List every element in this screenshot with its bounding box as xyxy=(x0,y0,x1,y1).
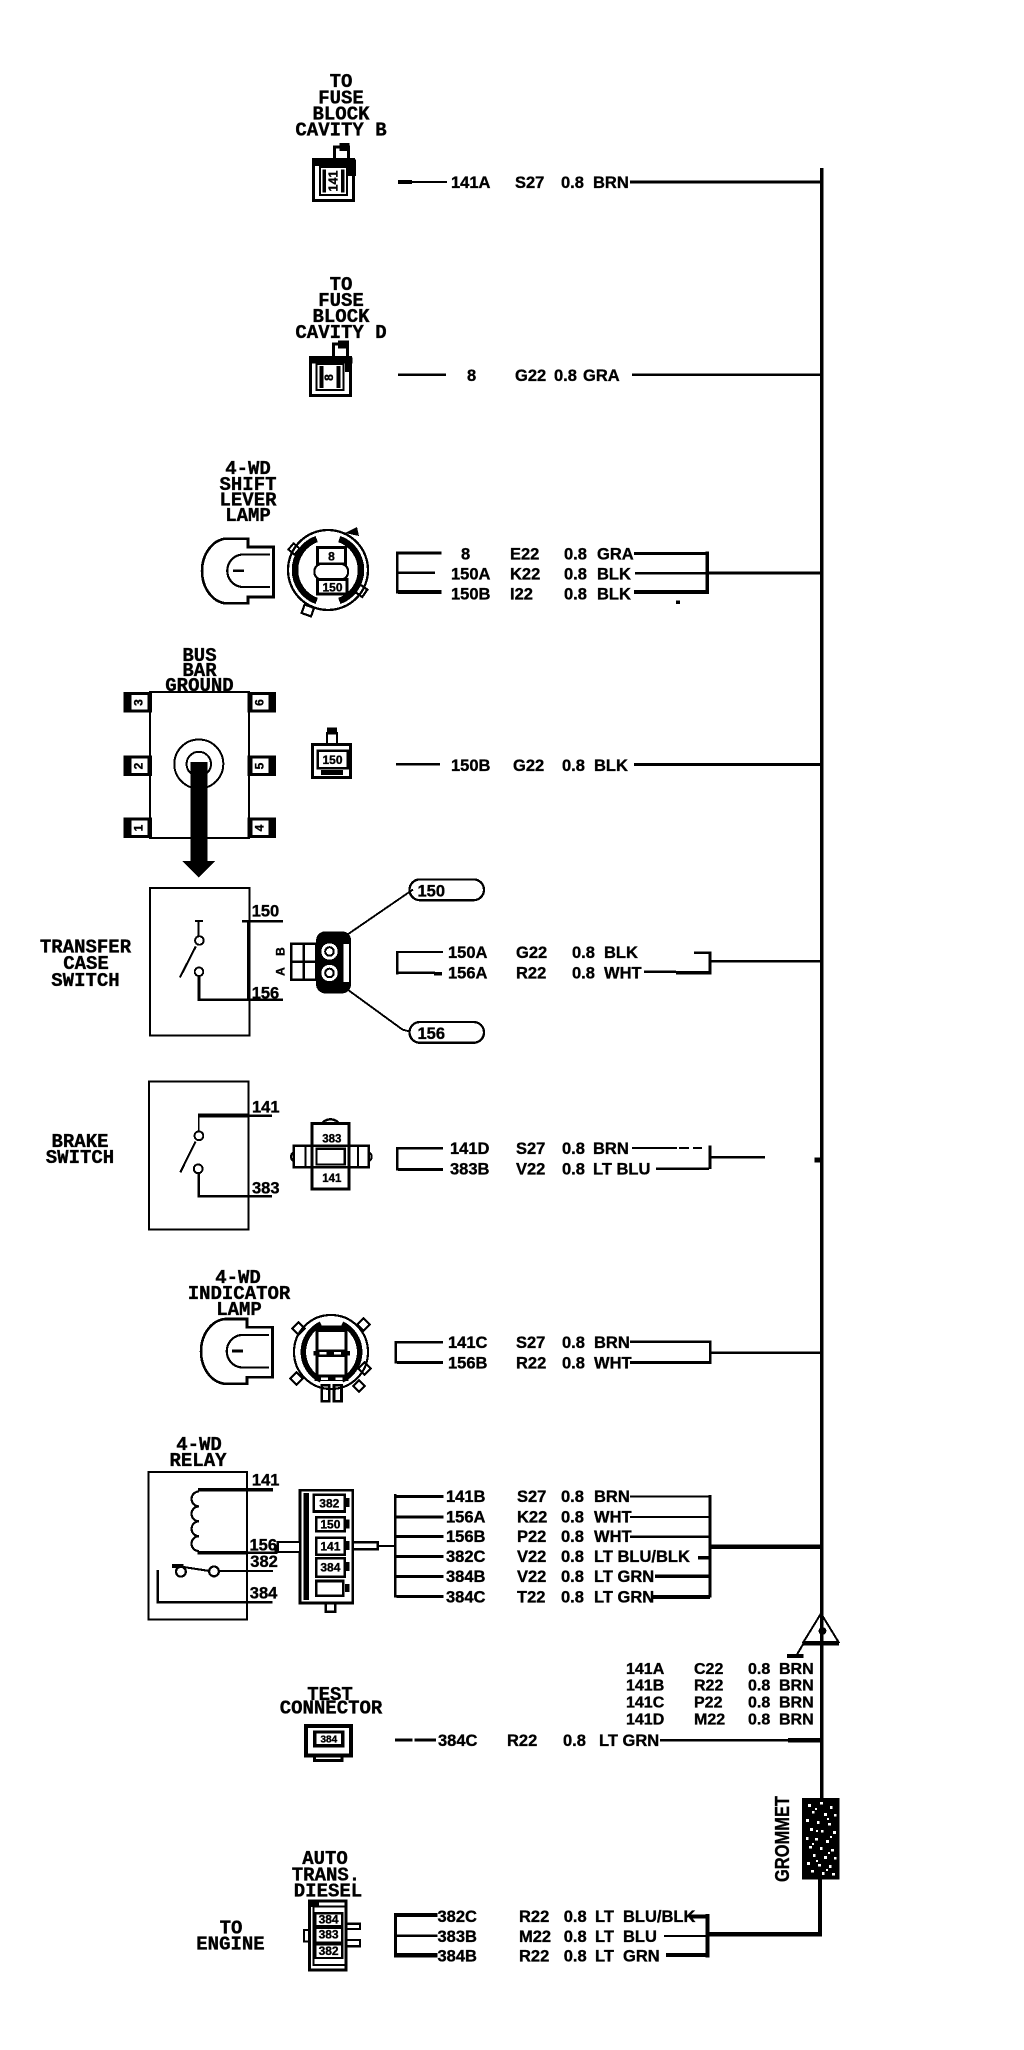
svg-text:M22: M22 xyxy=(519,1928,551,1946)
junction: 156A jog to bus xyxy=(694,952,710,954)
svg-text:GROMMET: GROMMET xyxy=(772,1796,794,1882)
wire 141B S27 0.8 BRN xyxy=(446,1488,710,1506)
svg-text:BRN: BRN xyxy=(594,1334,630,1352)
svg-text:150A: 150A xyxy=(448,944,488,962)
svg-text:RELAY: RELAY xyxy=(169,1450,227,1472)
svg-text:R22: R22 xyxy=(516,1355,546,1373)
label: 4-WD RELAY xyxy=(169,1434,227,1472)
transfer case switch: lead to pin 156 xyxy=(199,977,283,1000)
wire: lamp leads to bus xyxy=(709,572,821,575)
bus tick at brake wire level xyxy=(815,1158,824,1163)
svg-text:2: 2 xyxy=(132,762,146,769)
svg-text:LT BLU: LT BLU xyxy=(593,1161,650,1179)
label: TRANSFER CASE SWITCH xyxy=(40,937,132,993)
svg-text:0.8: 0.8 xyxy=(748,1695,770,1712)
svg-text:R22: R22 xyxy=(519,1948,549,1966)
svg-text:LT BLU/BLK: LT BLU/BLK xyxy=(594,1548,690,1566)
label: TEST CONNECTOR xyxy=(280,1684,383,1720)
svg-text:0.8: 0.8 xyxy=(564,1948,587,1966)
bus bar pin 3 xyxy=(124,692,153,713)
brake switch: arm xyxy=(180,1142,195,1173)
wire 156A K22 0.8 WHT xyxy=(446,1509,710,1527)
svg-text:BLU: BLU xyxy=(623,1928,657,1946)
svg-text:382: 382 xyxy=(319,1944,339,1958)
brake switch: top contact xyxy=(195,1131,204,1140)
svg-text:141A: 141A xyxy=(451,174,491,192)
svg-text:0.8: 0.8 xyxy=(748,1678,770,1695)
label: 4-WD SHIFT LEVER LAMP xyxy=(219,458,277,527)
svg-text:C22: C22 xyxy=(694,1661,723,1678)
svg-text:0.8: 0.8 xyxy=(564,566,587,584)
bus bar pin 1 xyxy=(124,818,153,839)
svg-text:150: 150 xyxy=(252,903,280,921)
svg-text:0.8: 0.8 xyxy=(564,1928,587,1946)
label: TO ENGINE xyxy=(196,1918,264,1956)
wire bracket: brake switch leads xyxy=(396,1147,443,1171)
svg-text:0.8: 0.8 xyxy=(561,1528,584,1546)
ground arrow (to transfer case switch) xyxy=(190,762,207,861)
svg-text:141: 141 xyxy=(320,1540,340,1554)
svg-text:BRN: BRN xyxy=(593,174,629,192)
brake switch: body xyxy=(149,1082,249,1230)
svg-text:R22: R22 xyxy=(694,1678,723,1695)
svg-text:0.8: 0.8 xyxy=(572,944,595,962)
svg-text:141B: 141B xyxy=(626,1678,664,1695)
svg-text:CAVITY B: CAVITY B xyxy=(295,120,386,142)
transfer case switch: top contact xyxy=(195,936,204,945)
svg-text:V22: V22 xyxy=(516,1161,545,1179)
svg-text:BRN: BRN xyxy=(594,1488,630,1506)
relay wire to pin 384 xyxy=(158,1570,273,1602)
wire 141C S27 0.8 BRN xyxy=(448,1334,709,1352)
svg-text:BRN: BRN xyxy=(779,1678,814,1695)
svg-text:BLK: BLK xyxy=(604,944,638,962)
svg-text:384B: 384B xyxy=(446,1568,486,1586)
svg-text:0.8: 0.8 xyxy=(562,1334,585,1352)
svg-text:141: 141 xyxy=(326,171,340,192)
wire 156A R22 0.8 WHT xyxy=(448,965,710,983)
relay pin 141 xyxy=(252,1472,280,1490)
svg-text:SWITCH: SWITCH xyxy=(46,1147,114,1169)
svg-text:0.8: 0.8 xyxy=(562,757,585,775)
stray dot artifact xyxy=(676,600,680,603)
svg-text:GRN: GRN xyxy=(623,1948,660,1966)
svg-text:156: 156 xyxy=(250,1537,278,1555)
svg-text:141C: 141C xyxy=(626,1695,665,1712)
wire 384B V22 0.8 LT GRN xyxy=(446,1568,710,1586)
svg-text:GRA: GRA xyxy=(597,546,634,564)
svg-text:156A: 156A xyxy=(448,965,488,983)
splice symbol S1: harness splice (triangle with dot) xyxy=(787,1614,839,1659)
svg-text:382: 382 xyxy=(250,1553,278,1571)
svg-text:P22: P22 xyxy=(694,1695,723,1712)
relay K1: 4-WD relay body xyxy=(148,1472,247,1619)
svg-text:141: 141 xyxy=(252,1099,280,1117)
svg-text:1: 1 xyxy=(132,824,146,831)
label: BRAKE SWITCH xyxy=(46,1131,114,1169)
svg-text:E22: E22 xyxy=(510,546,539,564)
brake switch: lead from pin 141 xyxy=(198,1114,249,1118)
wire 384B R22 0.8 LT GRN xyxy=(438,1948,709,1966)
svg-text:8: 8 xyxy=(328,550,335,564)
junction bracket: brake leads xyxy=(708,1145,711,1168)
connector C2: fuse block cavity D, terminal 8 xyxy=(311,341,353,396)
bus bar pin 2 xyxy=(124,756,153,777)
svg-text:156: 156 xyxy=(418,1025,446,1043)
relay switch arm xyxy=(183,1567,209,1571)
bus bar pin 5 xyxy=(248,756,277,777)
junction bracket: indicator leads xyxy=(709,1341,712,1364)
svg-text:384B: 384B xyxy=(438,1948,478,1966)
transfer case switch: body xyxy=(150,888,249,1036)
wire 150A G22 0.8 BLK xyxy=(448,944,638,962)
wire 150A K22 0.8 BLK xyxy=(451,566,709,584)
connector C7: indicator lamp socket xyxy=(290,1315,371,1401)
node 156 (in-line connector capsule) xyxy=(410,1022,485,1043)
svg-text:R22: R22 xyxy=(519,1908,549,1926)
node 150 (in-line connector capsule) xyxy=(410,879,485,900)
splice wire table: 141A C22 0.8 BRN xyxy=(626,1661,814,1678)
svg-text:S27: S27 xyxy=(516,1334,545,1352)
wire bracket: transfer case switch leads xyxy=(396,951,443,976)
wire 156B P22 0.8 WHT xyxy=(446,1528,710,1546)
svg-text:8: 8 xyxy=(322,374,336,381)
svg-text:BLU/BLK: BLU/BLK xyxy=(623,1908,695,1926)
svg-text:S27: S27 xyxy=(517,1488,546,1506)
wire: main harness bus (vertical run, right side) xyxy=(820,168,824,1798)
wire 382C R22 0.8 LT BLU/BLK xyxy=(438,1908,709,1926)
svg-text:R22: R22 xyxy=(507,1732,537,1750)
relay connector left wing xyxy=(278,1542,300,1552)
connector C4: bus bar ground lead, terminal 150 xyxy=(313,728,351,778)
bus bar pin 6 xyxy=(248,692,277,713)
svg-text:384C: 384C xyxy=(446,1589,486,1607)
wire bracket: shift lever lamp leads xyxy=(396,552,442,594)
junction bracket: relay leads xyxy=(709,1495,712,1598)
svg-text:0.8: 0.8 xyxy=(748,1712,770,1729)
svg-text:G22: G22 xyxy=(516,944,547,962)
svg-text:382C: 382C xyxy=(438,1908,478,1926)
svg-text:ENGINE: ENGINE xyxy=(196,1934,264,1956)
svg-text:382: 382 xyxy=(319,1497,339,1511)
svg-text:383: 383 xyxy=(319,1928,339,1942)
svg-text:S27: S27 xyxy=(515,174,544,192)
svg-text:G22: G22 xyxy=(513,757,544,775)
svg-text:BRN: BRN xyxy=(779,1712,814,1729)
svg-text:WHT: WHT xyxy=(594,1509,632,1527)
wire: connector to node 156 xyxy=(346,989,409,1032)
svg-text:150: 150 xyxy=(322,753,342,767)
relay coil xyxy=(192,1492,199,1552)
svg-text:BRN: BRN xyxy=(593,1140,629,1158)
relay coil feed wire (pin 141) xyxy=(198,1488,273,1491)
wire 8 E22 0.8 GRA (lamp feed) xyxy=(461,546,709,564)
label: BUS BAR GROUND xyxy=(165,645,233,697)
svg-text:383: 383 xyxy=(322,1134,341,1146)
svg-text:384: 384 xyxy=(250,1585,278,1603)
svg-text:156B: 156B xyxy=(446,1528,486,1546)
splice wire table: 141C P22 0.8 BRN xyxy=(626,1695,814,1712)
svg-text:0.8: 0.8 xyxy=(561,1568,584,1586)
wire bracket: indicator lamp leads xyxy=(395,1341,443,1364)
svg-text:150A: 150A xyxy=(451,566,491,584)
wire bracket: engine leads xyxy=(394,1913,437,1958)
transfer case switch: bottom contact xyxy=(195,968,204,977)
svg-text:141C: 141C xyxy=(448,1334,488,1352)
wire 150B G22 0.8 BLK xyxy=(396,757,821,775)
svg-text:0.8: 0.8 xyxy=(562,1140,585,1158)
svg-text:SWITCH: SWITCH xyxy=(51,970,119,992)
label: TO FUSE BLOCK CAVITY D xyxy=(295,274,386,344)
label: 4-WD INDICATOR LAMP xyxy=(188,1267,291,1321)
transfer case switch pin 156 xyxy=(252,985,280,1003)
transfer case switch: contact stem xyxy=(195,920,203,922)
svg-text:LT: LT xyxy=(595,1928,614,1946)
svg-text:150B: 150B xyxy=(451,586,491,604)
svg-text:BLK: BLK xyxy=(597,586,631,604)
connector C8: 4-WD relay connector xyxy=(278,1490,395,1612)
junction bracket to bus (lamp leads) xyxy=(706,552,709,594)
svg-text:V22: V22 xyxy=(517,1548,546,1566)
svg-text:LT GRN: LT GRN xyxy=(594,1589,654,1607)
transfer case switch: inner right lead xyxy=(247,922,249,999)
brake switch: bottom contact xyxy=(194,1164,203,1173)
svg-text:DIESEL: DIESEL xyxy=(294,1881,362,1903)
wire 156B R22 0.8 WHT xyxy=(448,1355,709,1373)
svg-text:GRA: GRA xyxy=(583,367,620,385)
svg-text:141B: 141B xyxy=(446,1488,486,1506)
svg-text:WHT: WHT xyxy=(594,1528,632,1546)
relay switch contact left xyxy=(176,1567,186,1577)
connector C1: fuse block cavity B, terminal 141 xyxy=(314,143,357,201)
svg-text:LT: LT xyxy=(595,1908,614,1926)
wire: transfer case leads to bus xyxy=(711,960,821,963)
svg-text:A: A xyxy=(274,967,288,976)
svg-text:156: 156 xyxy=(252,985,280,1003)
transfer case switch pin 150 xyxy=(242,903,283,923)
svg-text:384: 384 xyxy=(319,1912,339,1926)
svg-text:0.8: 0.8 xyxy=(564,546,587,564)
wire: relay leads to bus xyxy=(711,1545,821,1550)
svg-text:CONNECTOR: CONNECTOR xyxy=(280,1698,383,1720)
svg-text:G22: G22 xyxy=(515,367,546,385)
svg-text:S27: S27 xyxy=(516,1140,545,1158)
label: AUTO TRANS. DIESEL xyxy=(292,1848,362,1903)
svg-text:0.8: 0.8 xyxy=(564,586,587,604)
wire: connector to node 150 xyxy=(348,890,414,935)
svg-text:0.8: 0.8 xyxy=(563,1732,586,1750)
svg-text:0.8: 0.8 xyxy=(564,1908,587,1926)
lamp L1: 4-WD shift lever lamp bulb xyxy=(202,539,273,604)
wire 150B I22 0.8 BLK xyxy=(451,586,709,604)
svg-text:T22: T22 xyxy=(517,1589,545,1607)
svg-text:K22: K22 xyxy=(510,566,540,584)
svg-text:384C: 384C xyxy=(438,1732,478,1750)
svg-text:0.8: 0.8 xyxy=(561,1488,584,1506)
svg-text:LAMP: LAMP xyxy=(225,505,271,527)
wire 382C V22 0.8 LT BLU/BLK xyxy=(446,1548,710,1566)
svg-text:384: 384 xyxy=(320,1561,340,1575)
svg-text:K22: K22 xyxy=(517,1509,547,1527)
relay connector right wing xyxy=(353,1542,378,1549)
svg-text:8: 8 xyxy=(467,367,476,385)
wire 141D S27 0.8 BRN xyxy=(450,1140,702,1158)
svg-text:383B: 383B xyxy=(438,1928,478,1946)
splice wire table: 141B R22 0.8 BRN xyxy=(626,1678,814,1695)
svg-text:150: 150 xyxy=(418,883,446,901)
svg-text:150: 150 xyxy=(320,1518,340,1532)
bus bar pin 4 xyxy=(248,818,277,839)
svg-text:156A: 156A xyxy=(446,1509,486,1527)
connector C5: transfer case switch connector xyxy=(291,931,351,993)
svg-text:I22: I22 xyxy=(510,586,533,604)
connector C10: engine harness connector (384/383/382) xyxy=(304,1900,360,1971)
lamp L2: 4-WD indicator lamp bulb xyxy=(201,1319,272,1384)
svg-text:5: 5 xyxy=(253,762,267,769)
svg-text:M22: M22 xyxy=(694,1712,725,1729)
connector C6: brake switch connector (383 / 141) xyxy=(291,1119,372,1189)
svg-text:0.8: 0.8 xyxy=(561,1509,584,1527)
svg-text:V22: V22 xyxy=(517,1568,546,1586)
svg-text:0.8: 0.8 xyxy=(562,1161,585,1179)
splice wire table: 141D M22 0.8 BRN xyxy=(626,1712,814,1729)
svg-text:B: B xyxy=(274,947,288,956)
svg-text:3: 3 xyxy=(132,699,146,706)
svg-text:WHT: WHT xyxy=(594,1355,632,1373)
svg-text:WHT: WHT xyxy=(604,965,642,983)
svg-text:BLK: BLK xyxy=(597,566,631,584)
svg-text:8: 8 xyxy=(461,546,470,564)
wire 384C T22 0.8 LT GRN xyxy=(446,1589,710,1607)
svg-text:0.8: 0.8 xyxy=(561,1548,584,1566)
svg-text:BRN: BRN xyxy=(779,1695,814,1712)
wire bracket: relay leads xyxy=(394,1494,444,1598)
svg-text:0.8: 0.8 xyxy=(561,1589,584,1607)
svg-text:BRN: BRN xyxy=(779,1661,814,1678)
brake switch: lead to pin 383 xyxy=(199,1174,272,1197)
svg-text:6: 6 xyxy=(253,699,267,706)
wire: bus below grommet xyxy=(818,1880,822,1937)
relay switch pivot tick xyxy=(172,1564,184,1568)
brake switch pin 383 xyxy=(252,1180,280,1198)
svg-text:0.8: 0.8 xyxy=(748,1661,770,1678)
wire 8 G22 0.8 GRA xyxy=(398,367,821,385)
junction bracket: engine leads xyxy=(706,1914,710,1958)
wire 384C R22 0.8 LT GRN xyxy=(395,1732,822,1750)
svg-text:LT GRN: LT GRN xyxy=(594,1568,654,1586)
connector C9: test connector (384) xyxy=(306,1726,351,1761)
svg-text:141A: 141A xyxy=(626,1661,665,1678)
relay switch wire to pin 382 xyxy=(219,1570,273,1572)
bus bar ground: body xyxy=(150,692,249,838)
svg-text:141: 141 xyxy=(322,1173,342,1185)
svg-text:383: 383 xyxy=(252,1180,280,1198)
svg-text:0.8: 0.8 xyxy=(562,1355,585,1373)
relay coil return wire (pin 156) xyxy=(198,1551,247,1555)
wire: indicator leads to bus xyxy=(712,1352,821,1355)
ground stud rings xyxy=(174,740,223,789)
svg-text:BLK: BLK xyxy=(594,757,628,775)
label: TO FUSE BLOCK CAVITY B xyxy=(295,71,386,142)
svg-text:0.8: 0.8 xyxy=(561,174,584,192)
svg-text:150B: 150B xyxy=(451,757,491,775)
grommet: stippled body on bus xyxy=(802,1798,840,1880)
svg-text:383B: 383B xyxy=(450,1161,490,1179)
svg-text:156B: 156B xyxy=(448,1355,488,1373)
svg-text:150: 150 xyxy=(322,581,342,595)
svg-text:LT: LT xyxy=(595,1948,614,1966)
brake switch pin 141 xyxy=(252,1099,280,1117)
svg-text:LT GRN: LT GRN xyxy=(599,1732,659,1750)
svg-text:P22: P22 xyxy=(517,1528,546,1546)
svg-text:141: 141 xyxy=(252,1472,280,1490)
transfer case switch: arm xyxy=(180,946,196,977)
svg-text:141D: 141D xyxy=(450,1140,490,1158)
connector C3: shift lever lamp socket (cavities 8 / 150) xyxy=(288,527,368,616)
wire: bottom run from bus to engine leads xyxy=(709,1932,822,1937)
svg-text:384: 384 xyxy=(320,1735,337,1746)
svg-text:382C: 382C xyxy=(446,1548,486,1566)
svg-text:0.8: 0.8 xyxy=(554,367,577,385)
svg-text:R22: R22 xyxy=(516,965,546,983)
svg-text:4: 4 xyxy=(253,824,267,831)
relay switch contact right xyxy=(209,1567,219,1577)
svg-text:0.8: 0.8 xyxy=(572,965,595,983)
wire 141A S27 0.8 BRN xyxy=(398,174,821,192)
wire: brake leads toward bus (open end) xyxy=(711,1156,765,1159)
svg-text:141D: 141D xyxy=(626,1712,664,1729)
wire 383B V22 0.8 LT BLU xyxy=(450,1161,709,1179)
wire 383B M22 0.8 LT BLU xyxy=(438,1928,709,1946)
